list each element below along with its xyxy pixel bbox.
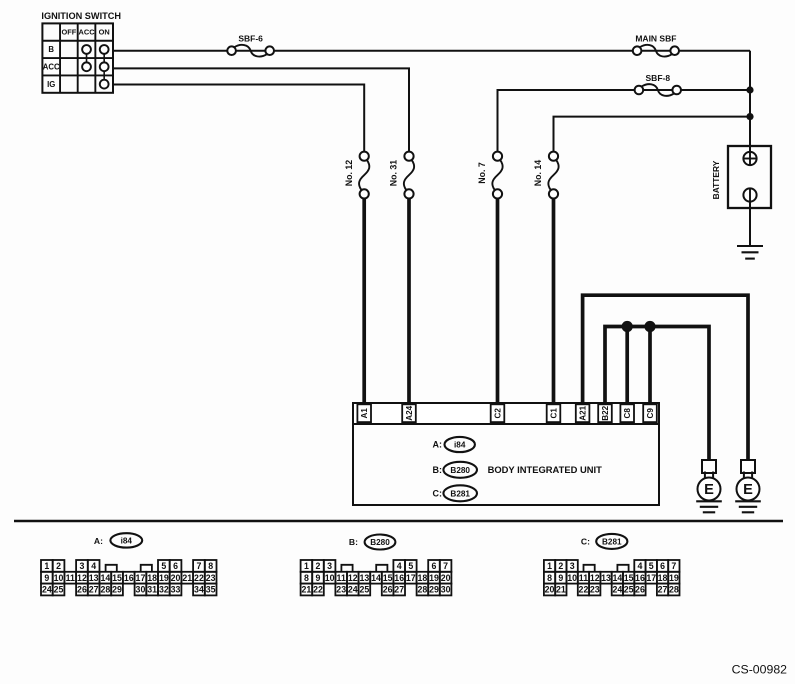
svg-text:8: 8 bbox=[208, 561, 213, 571]
svg-text:22: 22 bbox=[194, 573, 204, 583]
svg-text:No. 7: No. 7 bbox=[477, 162, 487, 184]
svg-text:B22: B22 bbox=[601, 405, 610, 420]
svg-text:IG: IG bbox=[47, 80, 55, 89]
svg-text:10: 10 bbox=[325, 573, 335, 583]
svg-text:4: 4 bbox=[91, 561, 96, 571]
svg-text:14: 14 bbox=[100, 573, 110, 583]
svg-text:20: 20 bbox=[171, 573, 181, 583]
svg-text:26: 26 bbox=[383, 585, 393, 595]
svg-text:29: 29 bbox=[112, 585, 122, 595]
svg-text:19: 19 bbox=[669, 573, 679, 583]
svg-text:E: E bbox=[704, 482, 714, 498]
svg-text:33: 33 bbox=[171, 585, 181, 595]
svg-text:28: 28 bbox=[100, 585, 110, 595]
svg-text:24: 24 bbox=[42, 585, 52, 595]
svg-text:23: 23 bbox=[336, 585, 346, 595]
svg-text:A24: A24 bbox=[405, 405, 414, 420]
svg-text:A:: A: bbox=[94, 536, 103, 546]
svg-text:27: 27 bbox=[394, 585, 404, 595]
svg-text:ACC: ACC bbox=[43, 63, 60, 72]
svg-text:26: 26 bbox=[77, 585, 87, 595]
svg-text:C1: C1 bbox=[549, 408, 558, 419]
svg-text:5: 5 bbox=[649, 561, 654, 571]
svg-text:9: 9 bbox=[558, 573, 563, 583]
svg-text:BODY INTEGRATED UNIT: BODY INTEGRATED UNIT bbox=[488, 464, 603, 475]
svg-text:25: 25 bbox=[360, 585, 370, 595]
svg-text:29: 29 bbox=[429, 585, 439, 595]
svg-text:25: 25 bbox=[54, 585, 64, 595]
svg-text:1: 1 bbox=[547, 561, 552, 571]
svg-text:17: 17 bbox=[646, 573, 656, 583]
svg-text:B281: B281 bbox=[602, 537, 622, 546]
svg-text:11: 11 bbox=[579, 573, 588, 583]
svg-text:17: 17 bbox=[136, 573, 146, 583]
svg-text:7: 7 bbox=[196, 561, 201, 571]
svg-text:C9: C9 bbox=[646, 408, 655, 419]
svg-text:C8: C8 bbox=[623, 408, 632, 419]
svg-text:1: 1 bbox=[304, 561, 309, 571]
svg-text:11: 11 bbox=[337, 573, 346, 583]
svg-text:B280: B280 bbox=[450, 466, 470, 475]
svg-text:15: 15 bbox=[383, 573, 393, 583]
svg-text:18: 18 bbox=[418, 573, 428, 583]
svg-text:17: 17 bbox=[406, 573, 416, 583]
svg-text:13: 13 bbox=[89, 573, 99, 583]
svg-text:ACC: ACC bbox=[79, 28, 96, 37]
svg-text:32: 32 bbox=[159, 585, 169, 595]
svg-text:i84: i84 bbox=[121, 536, 133, 545]
svg-text:21: 21 bbox=[556, 585, 566, 595]
svg-text:C2: C2 bbox=[493, 408, 502, 419]
svg-text:18: 18 bbox=[658, 573, 668, 583]
svg-text:8: 8 bbox=[304, 573, 309, 583]
svg-text:30: 30 bbox=[441, 585, 451, 595]
svg-text:C:: C: bbox=[581, 537, 590, 547]
svg-text:27: 27 bbox=[89, 585, 99, 595]
svg-text:No. 14: No. 14 bbox=[533, 160, 543, 187]
svg-text:2: 2 bbox=[56, 561, 61, 571]
svg-text:30: 30 bbox=[136, 585, 146, 595]
svg-text:23: 23 bbox=[206, 573, 216, 583]
svg-text:34: 34 bbox=[194, 585, 204, 595]
svg-text:B:: B: bbox=[349, 537, 358, 547]
svg-text:20: 20 bbox=[441, 573, 451, 583]
svg-text:21: 21 bbox=[302, 585, 312, 595]
svg-text:16: 16 bbox=[635, 573, 645, 583]
svg-text:6: 6 bbox=[660, 561, 665, 571]
svg-text:15: 15 bbox=[624, 573, 634, 583]
svg-text:35: 35 bbox=[206, 585, 216, 595]
svg-text:26: 26 bbox=[635, 585, 645, 595]
svg-text:7: 7 bbox=[443, 561, 448, 571]
svg-text:24: 24 bbox=[348, 585, 358, 595]
svg-text:31: 31 bbox=[147, 585, 157, 595]
svg-text:2: 2 bbox=[316, 561, 321, 571]
svg-text:22: 22 bbox=[579, 585, 589, 595]
svg-text:4: 4 bbox=[637, 561, 642, 571]
svg-text:6: 6 bbox=[432, 561, 437, 571]
svg-text:16: 16 bbox=[394, 573, 404, 583]
svg-text:13: 13 bbox=[601, 573, 611, 583]
svg-text:16: 16 bbox=[124, 573, 134, 583]
svg-text:B:: B: bbox=[433, 465, 443, 475]
svg-text:5: 5 bbox=[161, 561, 166, 571]
svg-text:2: 2 bbox=[558, 561, 563, 571]
svg-text:1: 1 bbox=[44, 561, 49, 571]
svg-text:9: 9 bbox=[44, 573, 49, 583]
svg-text:E: E bbox=[743, 482, 753, 498]
svg-text:28: 28 bbox=[669, 585, 679, 595]
svg-text:19: 19 bbox=[429, 573, 439, 583]
svg-text:4: 4 bbox=[397, 561, 402, 571]
svg-text:OFF: OFF bbox=[61, 28, 76, 37]
svg-text:22: 22 bbox=[313, 585, 323, 595]
svg-text:3: 3 bbox=[327, 561, 332, 571]
svg-text:A:: A: bbox=[433, 440, 443, 450]
svg-text:IGNITION SWITCH: IGNITION SWITCH bbox=[41, 11, 121, 21]
svg-text:12: 12 bbox=[77, 573, 87, 583]
svg-text:9: 9 bbox=[316, 573, 321, 583]
svg-text:12: 12 bbox=[590, 573, 600, 583]
svg-text:B280: B280 bbox=[370, 538, 390, 547]
svg-text:20: 20 bbox=[545, 585, 555, 595]
svg-text:21: 21 bbox=[182, 573, 192, 583]
svg-text:8: 8 bbox=[547, 573, 552, 583]
svg-text:No. 12: No. 12 bbox=[344, 160, 354, 187]
svg-text:11: 11 bbox=[66, 573, 75, 583]
svg-text:10: 10 bbox=[567, 573, 577, 583]
svg-text:SBF-8: SBF-8 bbox=[646, 73, 671, 83]
svg-text:12: 12 bbox=[348, 573, 358, 583]
svg-text:CS-00982: CS-00982 bbox=[732, 663, 788, 677]
svg-text:28: 28 bbox=[418, 585, 428, 595]
svg-text:15: 15 bbox=[112, 573, 122, 583]
svg-text:14: 14 bbox=[371, 573, 381, 583]
svg-text:25: 25 bbox=[624, 585, 634, 595]
svg-text:5: 5 bbox=[408, 561, 413, 571]
svg-text:3: 3 bbox=[79, 561, 84, 571]
svg-text:24: 24 bbox=[612, 585, 622, 595]
svg-text:10: 10 bbox=[54, 573, 64, 583]
svg-text:MAIN SBF: MAIN SBF bbox=[635, 34, 676, 44]
svg-text:18: 18 bbox=[147, 573, 157, 583]
svg-text:C:: C: bbox=[433, 488, 443, 498]
svg-text:SBF-6: SBF-6 bbox=[238, 34, 263, 44]
svg-text:6: 6 bbox=[173, 561, 178, 571]
svg-text:23: 23 bbox=[590, 585, 600, 595]
svg-text:A1: A1 bbox=[360, 408, 369, 419]
svg-text:B281: B281 bbox=[450, 489, 470, 498]
svg-text:13: 13 bbox=[360, 573, 370, 583]
svg-text:ON: ON bbox=[99, 28, 110, 37]
svg-text:3: 3 bbox=[570, 561, 575, 571]
svg-text:27: 27 bbox=[658, 585, 668, 595]
svg-text:7: 7 bbox=[671, 561, 676, 571]
svg-text:14: 14 bbox=[612, 573, 622, 583]
svg-text:B: B bbox=[48, 45, 54, 54]
svg-text:19: 19 bbox=[159, 573, 169, 583]
svg-text:BATTERY: BATTERY bbox=[711, 160, 721, 199]
svg-text:A21: A21 bbox=[578, 405, 587, 420]
svg-text:i84: i84 bbox=[454, 441, 466, 450]
svg-text:No. 31: No. 31 bbox=[389, 160, 399, 187]
